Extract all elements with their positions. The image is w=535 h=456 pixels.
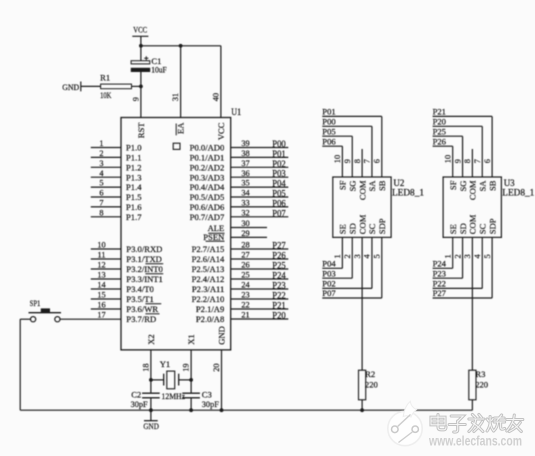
svg-text:P2.6/A14: P2.6/A14 xyxy=(192,254,225,264)
svg-text:P24: P24 xyxy=(272,271,286,281)
svg-text:P27: P27 xyxy=(272,241,286,251)
svg-text:P1.2: P1.2 xyxy=(126,162,142,172)
svg-text:38: 38 xyxy=(241,149,249,158)
svg-text:40: 40 xyxy=(211,93,220,101)
svg-text:P3.3/INT1: P3.3/INT1 xyxy=(126,274,163,284)
svg-text:28: 28 xyxy=(241,241,249,250)
svg-text:17: 17 xyxy=(97,311,105,320)
svg-text:P0.1/AD1: P0.1/AD1 xyxy=(190,153,225,163)
svg-text:VCC: VCC xyxy=(216,122,226,140)
svg-text:RST: RST xyxy=(136,122,146,139)
svg-text:29: 29 xyxy=(241,229,249,238)
svg-text:11: 11 xyxy=(98,251,106,260)
svg-text:SD: SD xyxy=(458,223,468,234)
svg-text:27: 27 xyxy=(241,251,249,260)
svg-text:SB: SB xyxy=(487,180,497,191)
svg-text:P25: P25 xyxy=(433,126,446,136)
svg-text:P0.2/AD2: P0.2/AD2 xyxy=(190,162,225,172)
svg-text:P3.6/WR: P3.6/WR xyxy=(126,304,158,314)
svg-text:18: 18 xyxy=(141,364,150,372)
svg-text:16: 16 xyxy=(97,301,105,310)
svg-text:P2.0/A8: P2.0/A8 xyxy=(196,314,224,324)
svg-text:P06: P06 xyxy=(322,136,336,146)
svg-text:SDP: SDP xyxy=(377,218,387,234)
svg-text:6: 6 xyxy=(483,159,492,163)
svg-text:COM: COM xyxy=(357,180,367,200)
svg-text:SF: SF xyxy=(448,180,458,190)
svg-text:P3.1/TXD: P3.1/TXD xyxy=(126,254,162,264)
svg-text:13: 13 xyxy=(97,271,105,280)
svg-text:R3: R3 xyxy=(475,369,485,379)
svg-text:C2: C2 xyxy=(131,389,141,399)
svg-text:P24: P24 xyxy=(433,259,447,269)
svg-text:GND: GND xyxy=(62,82,79,92)
svg-text:Y1: Y1 xyxy=(160,359,171,369)
svg-text:EA: EA xyxy=(176,122,186,134)
svg-text:P03: P03 xyxy=(322,268,335,278)
svg-text:22: 22 xyxy=(241,301,249,310)
svg-text:P21: P21 xyxy=(433,107,446,117)
svg-text:SG: SG xyxy=(458,181,468,192)
svg-text:P2.3/A11: P2.3/A11 xyxy=(192,284,224,294)
svg-text:LED8_1: LED8_1 xyxy=(502,187,534,197)
svg-text:37: 37 xyxy=(241,159,249,168)
svg-text:PSEN: PSEN xyxy=(203,232,225,242)
svg-text:31: 31 xyxy=(171,93,180,101)
svg-text:SC: SC xyxy=(367,223,377,234)
svg-text:P3.5/T1: P3.5/T1 xyxy=(126,294,153,304)
svg-text:SDP: SDP xyxy=(487,218,497,234)
svg-text:34: 34 xyxy=(241,189,250,198)
svg-text:SC: SC xyxy=(477,223,487,234)
svg-text:P00: P00 xyxy=(322,117,335,127)
svg-text:P23: P23 xyxy=(272,281,286,291)
svg-text:P05: P05 xyxy=(322,126,335,136)
svg-text:P1.4: P1.4 xyxy=(126,182,142,192)
svg-text:8: 8 xyxy=(99,208,103,217)
svg-text:15: 15 xyxy=(97,291,105,300)
svg-text:P07: P07 xyxy=(322,288,336,298)
svg-text:2: 2 xyxy=(343,254,352,258)
svg-text:6: 6 xyxy=(99,189,103,198)
svg-text:26: 26 xyxy=(241,261,249,270)
svg-text:P1.7: P1.7 xyxy=(126,212,142,222)
svg-text:SD: SD xyxy=(347,223,357,234)
svg-text:10K: 10K xyxy=(100,90,112,100)
svg-text:14: 14 xyxy=(97,281,106,290)
svg-text:30: 30 xyxy=(241,219,249,228)
svg-text:SE: SE xyxy=(338,224,348,234)
svg-text:21: 21 xyxy=(241,311,249,320)
svg-text:P01: P01 xyxy=(322,107,335,117)
svg-text:5: 5 xyxy=(99,179,103,188)
svg-text:P00: P00 xyxy=(272,139,286,149)
svg-text:P22: P22 xyxy=(433,279,446,289)
svg-text:7: 7 xyxy=(473,159,482,163)
svg-text:VCC: VCC xyxy=(133,25,147,35)
svg-text:23: 23 xyxy=(241,291,249,300)
svg-text:P0.5/AD5: P0.5/AD5 xyxy=(190,192,225,202)
svg-text:24: 24 xyxy=(241,281,250,290)
svg-text:SF: SF xyxy=(338,180,348,190)
svg-text:www.elecfans.com: www.elecfans.com xyxy=(428,434,522,449)
svg-text:P0.7/AD7: P0.7/AD7 xyxy=(190,212,225,222)
svg-text:GND: GND xyxy=(216,326,226,345)
svg-text:9: 9 xyxy=(343,159,352,163)
svg-text:5: 5 xyxy=(373,254,382,258)
svg-text:39: 39 xyxy=(241,139,249,148)
svg-text:COM: COM xyxy=(468,180,478,200)
svg-text:P1.3: P1.3 xyxy=(126,172,142,182)
svg-text:COM: COM xyxy=(468,214,478,234)
svg-text:10uF: 10uF xyxy=(151,65,167,75)
svg-text:P3.2/INT0: P3.2/INT0 xyxy=(126,264,163,274)
svg-text:2: 2 xyxy=(99,149,103,158)
svg-text:8: 8 xyxy=(353,159,362,163)
svg-text:10: 10 xyxy=(443,155,452,163)
svg-text:19: 19 xyxy=(182,364,191,372)
svg-text:P3.4/T0: P3.4/T0 xyxy=(126,284,153,294)
svg-text:X2: X2 xyxy=(146,334,156,345)
svg-text:R1: R1 xyxy=(100,72,110,82)
svg-text:P27: P27 xyxy=(433,288,447,298)
svg-text:32: 32 xyxy=(241,208,249,217)
svg-text:SP1: SP1 xyxy=(30,298,41,308)
svg-text:U1: U1 xyxy=(231,107,241,117)
svg-text:2: 2 xyxy=(453,254,462,258)
svg-text:12MHz: 12MHz xyxy=(162,391,186,401)
svg-text:R2: R2 xyxy=(365,369,375,379)
svg-text:10: 10 xyxy=(97,241,105,250)
svg-text:LED8_1: LED8_1 xyxy=(392,187,424,197)
svg-text:P3.7/RD: P3.7/RD xyxy=(126,314,156,324)
svg-text:220: 220 xyxy=(365,380,378,390)
svg-text:3: 3 xyxy=(463,254,472,258)
svg-text:33: 33 xyxy=(241,199,249,208)
svg-text:X1: X1 xyxy=(186,334,196,345)
svg-text:P0.3/AD3: P0.3/AD3 xyxy=(190,172,225,182)
svg-text:8: 8 xyxy=(463,159,472,163)
svg-text:35: 35 xyxy=(241,179,249,188)
svg-text:30pF: 30pF xyxy=(202,399,219,409)
svg-text:P3.0/RXD: P3.0/RXD xyxy=(126,244,162,254)
svg-text:SA: SA xyxy=(367,180,377,192)
svg-text:9: 9 xyxy=(131,97,140,101)
svg-text:P23: P23 xyxy=(433,268,446,278)
svg-text:3: 3 xyxy=(353,254,362,258)
svg-text:1: 1 xyxy=(99,139,103,148)
svg-text:30pF: 30pF xyxy=(131,399,148,409)
svg-text:P22: P22 xyxy=(272,291,285,301)
svg-text:P06: P06 xyxy=(272,198,286,208)
svg-text:220: 220 xyxy=(475,380,488,390)
svg-text:P26: P26 xyxy=(272,251,286,261)
svg-text:P1.6: P1.6 xyxy=(126,202,142,212)
svg-text:P2.4/A12: P2.4/A12 xyxy=(192,274,225,284)
svg-text:SG: SG xyxy=(347,181,357,192)
svg-text:10: 10 xyxy=(333,155,342,163)
svg-text:P20: P20 xyxy=(272,311,286,321)
svg-text:7: 7 xyxy=(99,199,103,208)
svg-text:P04: P04 xyxy=(272,179,286,189)
svg-text:7: 7 xyxy=(363,159,372,163)
svg-text:25: 25 xyxy=(241,271,249,280)
svg-text:P02: P02 xyxy=(322,279,335,289)
svg-text:C3: C3 xyxy=(202,389,212,399)
svg-text:P2.1/A9: P2.1/A9 xyxy=(196,304,224,314)
svg-text:3: 3 xyxy=(99,159,103,168)
svg-text:SA: SA xyxy=(477,180,487,192)
svg-text:P25: P25 xyxy=(272,261,286,271)
svg-text:20: 20 xyxy=(212,364,221,372)
svg-text:SE: SE xyxy=(448,224,458,234)
svg-text:P02: P02 xyxy=(272,159,285,169)
svg-text:P1.5: P1.5 xyxy=(126,192,142,202)
svg-text:P03: P03 xyxy=(272,169,286,179)
svg-text:P0.6/AD6: P0.6/AD6 xyxy=(190,202,225,212)
svg-text:12: 12 xyxy=(97,261,105,270)
svg-text:COM: COM xyxy=(357,214,367,234)
svg-text:9: 9 xyxy=(453,159,462,163)
svg-text:P0.0/AD0: P0.0/AD0 xyxy=(190,143,225,153)
svg-text:P1.0: P1.0 xyxy=(126,143,142,153)
svg-text:6: 6 xyxy=(373,159,382,163)
svg-text:P20: P20 xyxy=(433,117,446,127)
svg-text:P05: P05 xyxy=(272,189,286,199)
svg-text:5: 5 xyxy=(483,254,492,258)
svg-text:P04: P04 xyxy=(322,259,336,269)
svg-text:P07: P07 xyxy=(272,208,286,218)
svg-text:P01: P01 xyxy=(272,149,285,159)
svg-text:P2.2/A10: P2.2/A10 xyxy=(192,294,225,304)
svg-text:36: 36 xyxy=(241,169,249,178)
svg-text:P2.7/A15: P2.7/A15 xyxy=(192,244,225,254)
svg-text:P0.4/AD4: P0.4/AD4 xyxy=(190,182,225,192)
svg-text:GND: GND xyxy=(143,421,159,431)
svg-text:P1.1: P1.1 xyxy=(126,153,142,163)
svg-text:P26: P26 xyxy=(433,136,447,146)
svg-text:SB: SB xyxy=(377,180,387,191)
svg-text:P2.5/A13: P2.5/A13 xyxy=(192,264,225,274)
svg-text:P21: P21 xyxy=(272,301,285,311)
